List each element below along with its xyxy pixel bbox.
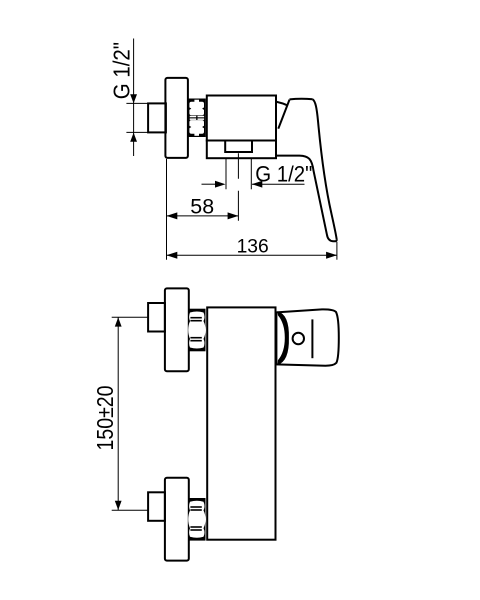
extension line stub top <box>126 102 148 104</box>
handle neck front edge <box>278 100 289 129</box>
58 dim line <box>167 215 239 217</box>
svg-text:136: 136 <box>237 237 269 258</box>
outlet G 1/2 dim leader left <box>202 183 216 185</box>
150±20 dim line <box>117 317 119 510</box>
wall flange (side view) <box>165 78 188 158</box>
outlet G 1/2 dim leader right <box>252 183 305 185</box>
58 right arrow <box>228 212 239 219</box>
handle cap top <box>290 98 313 101</box>
outlet center line <box>237 153 239 220</box>
handle groove line <box>311 319 313 358</box>
top wall flange (front view) <box>165 288 189 371</box>
bottom union nut (front view) <box>188 498 206 541</box>
extension line stub bottom <box>126 131 148 133</box>
thread notches on spools <box>189 107 191 110</box>
arrow right at outlet left <box>215 181 226 188</box>
top wall pipe stub (front view) <box>148 303 165 332</box>
right extension line (handle tip) <box>336 242 338 260</box>
outlet left extension line <box>225 159 227 189</box>
arrow down to stub top <box>130 94 137 103</box>
svg-text:150±20: 150±20 <box>93 385 119 450</box>
handle (front view) <box>276 309 338 365</box>
bottom extension line <box>112 509 148 511</box>
top union nut (front view) <box>188 309 206 352</box>
bottom wall pipe stub (front view) <box>148 492 165 521</box>
arrow up to stub bottom <box>130 133 137 142</box>
body (side view) <box>207 96 276 141</box>
outlet stub G 1/2 (side view) <box>225 141 252 153</box>
136 right arrow <box>326 252 337 259</box>
handle front edge <box>276 156 336 242</box>
handle screw hole circle <box>293 333 304 344</box>
handle cap underside edge <box>277 102 288 105</box>
svg-text:G 1/2": G 1/2" <box>108 42 134 99</box>
handle back edge down to tip <box>313 99 337 239</box>
arrowheads, top drawing <box>130 94 337 259</box>
136 left arrow <box>167 252 178 259</box>
150±20 bottom arrow <box>115 501 122 510</box>
body (front view) <box>207 307 275 539</box>
136 dim line <box>167 254 337 256</box>
handle lever (side view) <box>276 99 336 242</box>
svg-text:58: 58 <box>190 194 214 218</box>
wall pipe stub (side view) <box>148 103 166 132</box>
svg-text:G 1/2": G 1/2" <box>255 162 312 187</box>
handle cap (thick black arc) <box>278 311 289 365</box>
left extension line (flange front face) <box>166 159 168 260</box>
arrow left at outlet right <box>252 181 262 188</box>
vertical G 1/2 dim line (top left) <box>133 39 135 157</box>
outlet right extension line <box>250 159 252 189</box>
union nut (side view) <box>188 99 206 138</box>
top extension line <box>112 316 148 318</box>
bottom wall flange (front view) <box>165 478 189 561</box>
150±20 top arrow <box>115 317 122 326</box>
handle body <box>276 309 338 365</box>
outlet housing (side view) <box>207 141 276 159</box>
58 left arrow <box>167 212 178 219</box>
